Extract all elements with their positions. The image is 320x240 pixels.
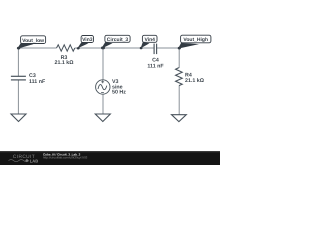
svg-text:Vout_low: Vout_low bbox=[22, 38, 44, 44]
node flag Vin3 bbox=[77, 42, 88, 48]
svg-text:Vout_High: Vout_High bbox=[183, 37, 208, 43]
svg-text:Circuit_3: Circuit_3 bbox=[107, 37, 129, 43]
wire: center vertical junction down to V3 bbox=[102, 48, 104, 80]
wire: R4 bottom to ground bbox=[178, 86, 180, 115]
wire: left vertical Vout_low down to C3 bbox=[17, 48, 19, 77]
wire: C4 right plate to Vout_High corner bbox=[157, 47, 180, 49]
svg-text:111 nF: 111 nF bbox=[29, 79, 46, 85]
capacitor C3 bbox=[11, 75, 26, 77]
svg-text:21.1 kΩ: 21.1 kΩ bbox=[185, 78, 205, 84]
node flag Vout_High bbox=[178, 43, 199, 49]
svg-text:Vin4: Vin4 bbox=[144, 37, 155, 43]
wire: C3 bottom to ground bbox=[17, 80, 19, 114]
node junction at Circuit_3 bbox=[101, 46, 105, 49]
svg-text:Vin3: Vin3 bbox=[82, 37, 93, 43]
ground (C3 branch) bbox=[11, 114, 26, 122]
svg-text:http://circuitlab.com/c8k39cyt: http://circuitlab.com/c8k39cyt7t93 bbox=[43, 156, 88, 160]
svg-text:111 nF: 111 nF bbox=[147, 64, 164, 70]
node flag Vin4 bbox=[141, 42, 150, 48]
wire: R3 right lead to C4 left plate bbox=[75, 47, 154, 49]
capacitor C4 bbox=[153, 44, 155, 55]
wire: right vertical Vout_High down to R4 bbox=[178, 48, 180, 69]
svg-text:50 Hz: 50 Hz bbox=[112, 90, 126, 96]
voltage source V3 bbox=[96, 80, 110, 94]
wire: main horizontal net Vout_low to R3 bbox=[18, 47, 56, 49]
wire: V3 bottom to ground bbox=[102, 94, 104, 114]
svg-text:LAB: LAB bbox=[30, 159, 38, 164]
svg-text:21.1 kΩ: 21.1 kΩ bbox=[55, 60, 75, 66]
footer bar bbox=[0, 151, 220, 165]
ground (R4 branch) bbox=[172, 115, 187, 122]
node flag Circuit_3 bbox=[101, 42, 112, 49]
ground (V3 branch) bbox=[95, 114, 110, 122]
node flag Vout_low bbox=[17, 43, 33, 49]
resistor R4 bbox=[176, 68, 183, 86]
resistor R3 bbox=[57, 45, 75, 51]
